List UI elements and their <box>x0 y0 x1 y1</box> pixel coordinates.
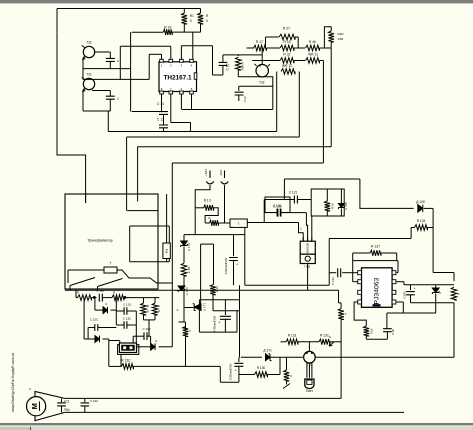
converter U4 left pin 8 <box>358 300 362 304</box>
wire H3 left drop to transformer <box>137 147 139 202</box>
svg-text:Jr: Jr <box>29 387 31 391</box>
wire pin3R lead <box>396 281 404 283</box>
wire C130 right lead <box>281 212 306 214</box>
wire chip pin5 down to C14 <box>161 94 163 112</box>
wire R2R bottom long vertical to H3 <box>330 42 332 147</box>
wire to C1b2 cap <box>133 335 144 337</box>
wire H284 rail <box>245 284 329 286</box>
wire R23 right lead / pair bottom rail <box>172 31 200 33</box>
wire Cout bottom lead <box>410 295 412 303</box>
wire pin6 jog right <box>171 122 191 124</box>
wire R133 left stub <box>281 341 287 343</box>
wire R27 right down <box>297 37 299 48</box>
capacitor C1B <box>383 329 392 332</box>
capacitor C2200a <box>229 258 238 261</box>
transformer winding stub1 <box>85 194 87 203</box>
wire light rail right segment <box>315 356 454 358</box>
resistor R1X snubber <box>325 201 331 211</box>
capacitor C136 <box>277 209 280 217</box>
wire C1b2 right <box>147 335 151 337</box>
wire H5 down to D106 <box>360 179 414 208</box>
wire row elbow down <box>219 366 221 382</box>
wire down to D5 anode <box>150 336 152 343</box>
capacitor C13C <box>124 321 127 329</box>
wire Rx2 bottom lead <box>286 381 288 385</box>
svg-text:C 1M: C 1M <box>96 289 104 293</box>
capacitor C1M <box>99 294 102 302</box>
wire C17 top lead <box>109 91 111 97</box>
svg-text:R 23: R 23 <box>164 26 171 30</box>
wire regulator pin2 feed <box>306 213 307 242</box>
resistor R2R <box>328 31 334 42</box>
wire Rv2 bottom <box>154 315 156 320</box>
svg-text:д: д <box>105 302 107 306</box>
optocoupler U3 body <box>119 343 136 353</box>
wire top-left corner vertical <box>56 9 58 33</box>
resistor R16 <box>280 45 294 51</box>
wire diode D3 left drop <box>94 298 96 311</box>
transistor T32 leads <box>82 45 86 58</box>
wire emitter bus to H1 feeder <box>83 110 110 112</box>
optocoupler U3 outer tray <box>118 345 139 355</box>
wire Rv1 bottom <box>143 315 145 320</box>
op-amp U1 top pin 1 <box>160 59 164 62</box>
resistor R27 <box>279 34 295 40</box>
svg-text:U: U <box>438 292 442 294</box>
op-amp U1 bottom pin 6 <box>180 91 184 94</box>
wire H284 output rail <box>404 284 454 286</box>
optocoupler U3 internal <box>121 345 135 351</box>
wire C15 top lead <box>222 55 224 63</box>
svg-text:T32: T32 <box>86 41 92 45</box>
svg-text:Свет: Свет <box>306 389 314 393</box>
wire fuse right with contact step <box>117 270 172 283</box>
resistor R137 <box>370 250 381 256</box>
svg-text:C13: C13 <box>243 96 247 102</box>
svg-text:C 14: C 14 <box>157 102 164 106</box>
wire pin1R lead <box>396 301 403 303</box>
wire motor top rail <box>65 397 341 399</box>
resistor R2b <box>210 285 216 295</box>
wire frame left descend to transformer stub <box>57 32 86 203</box>
wire U1T1 right riser <box>200 244 202 304</box>
wire Rv3 bottom to R13C rail <box>185 337 187 367</box>
wire C131 right lead <box>127 310 136 312</box>
wire zener U1Tb top lead <box>183 235 185 241</box>
wire Rx top lead <box>340 303 342 309</box>
resistor R13C <box>122 364 134 370</box>
switch contact blade 1 <box>70 278 95 286</box>
wire to chip pin1 <box>149 53 161 55</box>
wire R2nd left lead <box>205 222 210 224</box>
wire C13C left lead <box>116 324 124 326</box>
svg-text:2: 2 <box>300 227 302 231</box>
wire output resistor top lead <box>453 273 455 282</box>
bottom bar white line <box>0 426 473 427</box>
svg-text:R1R X: R1R X <box>241 62 245 71</box>
svg-text:-БАТ: -БАТ <box>219 169 223 176</box>
op-amp U1 top pin 2 <box>169 59 173 62</box>
converter U4 right pin 4 <box>392 300 396 304</box>
wire C13C right lead <box>127 324 136 326</box>
fuse F1 <box>104 267 117 273</box>
resistor R104 <box>415 225 428 231</box>
wire H272 to output resistor <box>433 272 454 274</box>
wire C4700 top lead <box>224 300 226 315</box>
converter U4 right pin 1 <box>392 271 396 275</box>
wire pin6 down to H1 <box>190 123 192 132</box>
wire C4700 bottom lead <box>224 319 226 332</box>
wire C15 top rail to T32b base <box>223 54 262 56</box>
wire long vertical x172 battery rail <box>171 163 173 347</box>
svg-text:X: X <box>189 329 191 333</box>
svg-text:M: M <box>30 403 39 409</box>
wire fuse left drop <box>67 270 69 283</box>
svg-text:C 130: C 130 <box>273 204 282 208</box>
wire H234 link rail <box>184 234 245 236</box>
lamp leads <box>307 363 312 378</box>
wire C12C left leg <box>87 328 89 340</box>
wire D4 left lead <box>84 338 95 340</box>
capacitor C4700 <box>220 316 231 319</box>
wire R1a-C1M link <box>92 297 97 299</box>
transistor T32 emitter arrow <box>82 57 85 60</box>
wire x239.5 riser upper <box>239 285 241 300</box>
capacitor C121 <box>294 196 297 204</box>
svg-text:Д 17х: Д 17х <box>263 349 272 353</box>
wire R27 left lead <box>266 36 279 38</box>
wire caps cluster left riser <box>115 298 117 326</box>
wire to chip pin 4 <box>192 32 194 60</box>
converter U4 left pin 5 <box>358 271 362 275</box>
wire down to C15 bottom <box>212 46 214 75</box>
connector +BAT pin <box>206 171 214 184</box>
wire C1 top lead <box>61 398 63 402</box>
wire R137 left lead <box>353 252 370 254</box>
wire R137 right drop <box>396 253 398 261</box>
resistor Rx2 <box>284 370 290 381</box>
wire R130 right up to rail <box>279 357 281 374</box>
wire H5 left drop <box>283 179 285 200</box>
capacitor C16 <box>106 58 115 61</box>
wire output network bottom rail <box>411 302 455 304</box>
svg-text:R2R: R2R <box>338 32 345 36</box>
svg-text:R: R <box>113 291 116 295</box>
switch blade2 stub <box>97 287 99 291</box>
svg-text:Х: Х <box>176 308 178 312</box>
svg-text:T: T <box>238 222 240 226</box>
transistor T01 <box>304 351 316 363</box>
resistor K1X <box>364 326 370 336</box>
wire chip pin7 down <box>180 94 182 109</box>
wire bottom rail to H312 <box>435 303 437 313</box>
wire chip pin1 up <box>161 54 163 60</box>
wire R133-R13Cb link <box>298 341 319 343</box>
transformer box <box>65 194 158 289</box>
resistor R23 <box>163 29 172 35</box>
transistor T32b leads <box>255 64 271 66</box>
svg-text:C1B: C1B <box>391 329 395 335</box>
bottom scrollbar separator <box>30 427 31 430</box>
svg-text:ПДв: ПДв <box>64 408 70 412</box>
wire top rail down to pin4R <box>397 261 399 273</box>
wire R130 right lead <box>268 374 281 376</box>
wire C2200a top lead <box>233 235 235 256</box>
motor M1 bar <box>39 402 41 411</box>
svg-text:X: X <box>147 309 149 313</box>
wire U1Tb to K1B <box>183 247 185 264</box>
wire K1b bottom lead <box>166 259 168 262</box>
resistor R13Cb <box>319 339 330 345</box>
svg-text:КИА1БВ: КИА1БВ <box>305 243 309 253</box>
transistor T31 (lower left) <box>83 78 94 89</box>
svg-text:R 27: R 27 <box>283 27 290 31</box>
capacitor box C4700 outline <box>199 300 239 332</box>
wire T32b drop down to H109 <box>272 77 274 110</box>
wire light rail left segment <box>241 356 262 358</box>
svg-text:TH2167.1: TH2167.1 <box>163 75 192 82</box>
zener Dout <box>432 288 439 294</box>
wire D4 cathode lead <box>103 338 109 340</box>
svg-text:Трансформатор: Трансформатор <box>87 239 112 243</box>
svg-text:+: + <box>236 262 239 267</box>
wire C1B top lead <box>386 313 388 328</box>
svg-text:К1Х: К1Х <box>370 328 374 333</box>
wire R104 left lead <box>411 227 414 229</box>
wire Cout top lead <box>410 285 412 290</box>
wire R1 bottom lead <box>183 24 185 32</box>
wire regulator pin3 up <box>311 216 313 241</box>
wire transformer interior bottom <box>130 261 170 263</box>
zener U1Tb <box>181 241 188 247</box>
wire R13Cb right lead <box>330 341 341 343</box>
op-amp U1 TH2167.1 body <box>159 62 197 92</box>
svg-text:R 130: R 130 <box>257 366 266 370</box>
wire R2b top lead <box>213 244 215 285</box>
wire D3 left lead <box>95 309 103 311</box>
svg-text:2200мкФ10V: 2200мкФ10V <box>224 258 228 275</box>
wire right output down to light rail <box>453 303 455 357</box>
wire vertical x239.5 down to D17x rail <box>239 300 241 357</box>
wire Rv pair stub down to C1b2 rail <box>148 320 150 336</box>
wire R137 right lead <box>381 252 397 254</box>
wire H310 link <box>213 310 240 312</box>
op-amp U1 bottom pin 5 <box>190 91 194 94</box>
converter U4 right pin 2 <box>392 280 396 284</box>
wire R13C right lead long <box>134 365 221 367</box>
svg-text:X: X <box>290 374 292 378</box>
svg-text:R 4b: R 4b <box>309 40 316 44</box>
wire bus end drop <box>338 290 340 303</box>
wire zener Dout top lead <box>435 285 437 288</box>
wire C15 bottom lead <box>213 74 223 76</box>
resistor R1c <box>112 295 124 301</box>
voltage regulator U2 body <box>300 241 315 254</box>
wire D3 right lead <box>111 309 117 311</box>
svg-text:К1b: К1b <box>165 248 169 253</box>
potentiometer arrow <box>283 384 290 389</box>
capacitor C13b <box>235 92 244 95</box>
svg-text:C 121: C 121 <box>289 191 298 195</box>
wire emitter parallel branch <box>239 85 273 87</box>
wire C15 bottom vertical <box>222 65 224 75</box>
wire H4 rail y163 <box>172 162 323 164</box>
svg-text:Д 10б: Д 10б <box>416 200 425 204</box>
resistor Rv1 <box>141 303 147 315</box>
wire C13b bottom stub <box>238 95 240 101</box>
wire R2 top lead <box>200 9 202 14</box>
wire riser x149 <box>148 54 150 79</box>
capacitor C2200b <box>234 363 243 366</box>
bottom bar mid line <box>0 425 473 426</box>
wire H2 left drop into transformer <box>126 137 128 211</box>
wire C121-C130-L1 riser <box>263 200 265 223</box>
svg-text:R 32: R 32 <box>283 53 290 57</box>
wire -BAT down to box <box>225 185 231 223</box>
svg-text:К 2b: К 2b <box>215 286 219 292</box>
svg-text:R1: R1 <box>190 14 194 18</box>
converter U4 right pin 3 <box>392 290 396 294</box>
converter U4 left pin 7 <box>358 290 362 294</box>
op-amp U1 bottom pin 8 <box>160 91 164 94</box>
svg-text:T32: T32 <box>259 81 265 85</box>
wire C134 right lead to pin1L <box>342 272 358 274</box>
wire main bus y290.3 <box>65 289 339 291</box>
wire C16 bottom lead <box>109 61 111 68</box>
svg-text:X: X <box>458 292 460 296</box>
resistor R2nd <box>210 220 219 226</box>
wire pin1R drop <box>402 302 404 313</box>
wire C16 bottom rail to vertical <box>83 68 131 70</box>
svg-text:U 1Tb: U 1Tb <box>187 243 191 252</box>
wire chip pin8 down <box>191 94 193 109</box>
wire C12 bottom to H1 <box>163 128 165 132</box>
svg-text:C 1ЗС: C 1ЗС <box>123 317 132 321</box>
wire T32 collector to C16 <box>95 51 111 53</box>
transistor T32b (right) <box>256 65 268 77</box>
wire R17-R16 link <box>267 47 281 49</box>
svg-text:WR 11: WR 11 <box>308 53 318 57</box>
bottom status bar <box>0 423 473 430</box>
resistor R130 <box>255 372 268 378</box>
wire R1R bottom lead <box>237 70 239 77</box>
wire K1b top lead <box>166 194 168 243</box>
wire R4b right lead <box>320 47 332 49</box>
wire C2200a bottom lead <box>233 261 235 286</box>
wire R27 right lead <box>295 36 298 38</box>
zener U150 <box>338 204 344 210</box>
motor M1 <box>26 397 45 416</box>
wire T31 emitter down <box>82 91 84 111</box>
svg-text:B: B <box>147 304 149 308</box>
wire chip pin2 up <box>170 46 172 60</box>
capacitor C1 <box>57 403 66 406</box>
capacitor C1b2 <box>144 332 147 340</box>
wire C121 right lead into box <box>298 199 312 201</box>
wire R2R top hook <box>324 27 331 48</box>
wire pin4L staircase <box>354 302 366 326</box>
snubber box outline <box>311 189 344 216</box>
wire R1X top lead <box>326 189 328 201</box>
svg-text:+: + <box>218 320 221 325</box>
svg-text:R: R <box>77 291 80 295</box>
svg-text:C: C <box>117 97 120 101</box>
wire H79 rail to riser <box>83 78 149 80</box>
svg-text:C 13: C 13 <box>157 118 164 122</box>
wire K1X bottom lead <box>365 336 367 339</box>
resistor R1R <box>236 57 242 70</box>
wire Rv3 top lead <box>185 322 187 330</box>
wire vertical from R23 down to C14 rail <box>130 32 132 111</box>
converter U4 left pin 6 <box>358 280 362 284</box>
lamp bulb inner <box>307 380 312 384</box>
svg-text:C 12C: C 12C <box>90 318 99 322</box>
svg-text:PJ34063: PJ34063 <box>374 277 381 304</box>
wire H238 rail to R104 <box>329 238 411 240</box>
wire C1 bottom lead <box>61 407 63 413</box>
wire Rx bottom long vertical <box>340 320 342 399</box>
resistor WR12 <box>281 69 295 75</box>
wire feeder down to H1 <box>107 111 109 132</box>
wire transformer interior top <box>130 225 170 227</box>
node top right <box>200 8 202 10</box>
svg-text:X: X <box>329 335 331 339</box>
resistor K1b (box style) <box>163 243 170 259</box>
diode U17C <box>178 286 185 292</box>
wire WR11 vertical down to H4 <box>322 61 324 164</box>
svg-text:b: b <box>159 304 161 308</box>
capacitor C12C <box>95 324 98 331</box>
svg-text:C1B2: C1B2 <box>403 291 407 298</box>
wire K1B bottom down <box>183 276 185 322</box>
capacitor Cout <box>406 292 415 295</box>
wire under T32b to drop <box>238 76 273 78</box>
zener D17x <box>266 354 272 361</box>
wire C12C left lead <box>88 327 95 329</box>
wire R32 left lead <box>252 60 280 62</box>
wire D5 to battery rail vertical <box>159 346 173 348</box>
wire R32-WR11 link <box>294 60 305 62</box>
wire R2nd right lead to L1 box <box>219 222 231 224</box>
wire C12C right lead <box>98 327 116 329</box>
wire K1X to C1B bottom rail <box>366 338 387 340</box>
svg-text:X: X <box>206 19 209 23</box>
capacitor C12 <box>159 125 168 128</box>
resistor Rout <box>451 287 457 300</box>
svg-text:2200мкФ25V: 2200мкФ25V <box>229 364 233 381</box>
svg-text:R1X: R1X <box>331 203 335 209</box>
wire x433 vertical <box>432 208 434 272</box>
wire top rail to chip pin2 <box>120 45 171 47</box>
svg-text:C 1З4: C 1З4 <box>331 277 335 285</box>
resistor Rv3 <box>183 327 189 337</box>
wire H2 rail y137 <box>127 136 300 138</box>
wire R1b staircase <box>205 208 218 223</box>
capacitor C136 box wires <box>265 197 290 213</box>
wire R23 left lead <box>132 31 164 33</box>
connector -BAT pin <box>221 171 229 184</box>
svg-text:R: R <box>208 216 211 220</box>
svg-text:X: X <box>190 19 193 23</box>
svg-text:+: + <box>414 287 416 291</box>
wire H312 rail <box>403 312 435 314</box>
wire R2 bottom lead <box>200 24 202 32</box>
resistor R32 <box>280 58 294 64</box>
lamp bulb <box>305 379 314 389</box>
wire row extension right <box>124 297 159 299</box>
capacitor C130 <box>278 209 281 217</box>
svg-text:U 150: U 150 <box>344 202 348 210</box>
